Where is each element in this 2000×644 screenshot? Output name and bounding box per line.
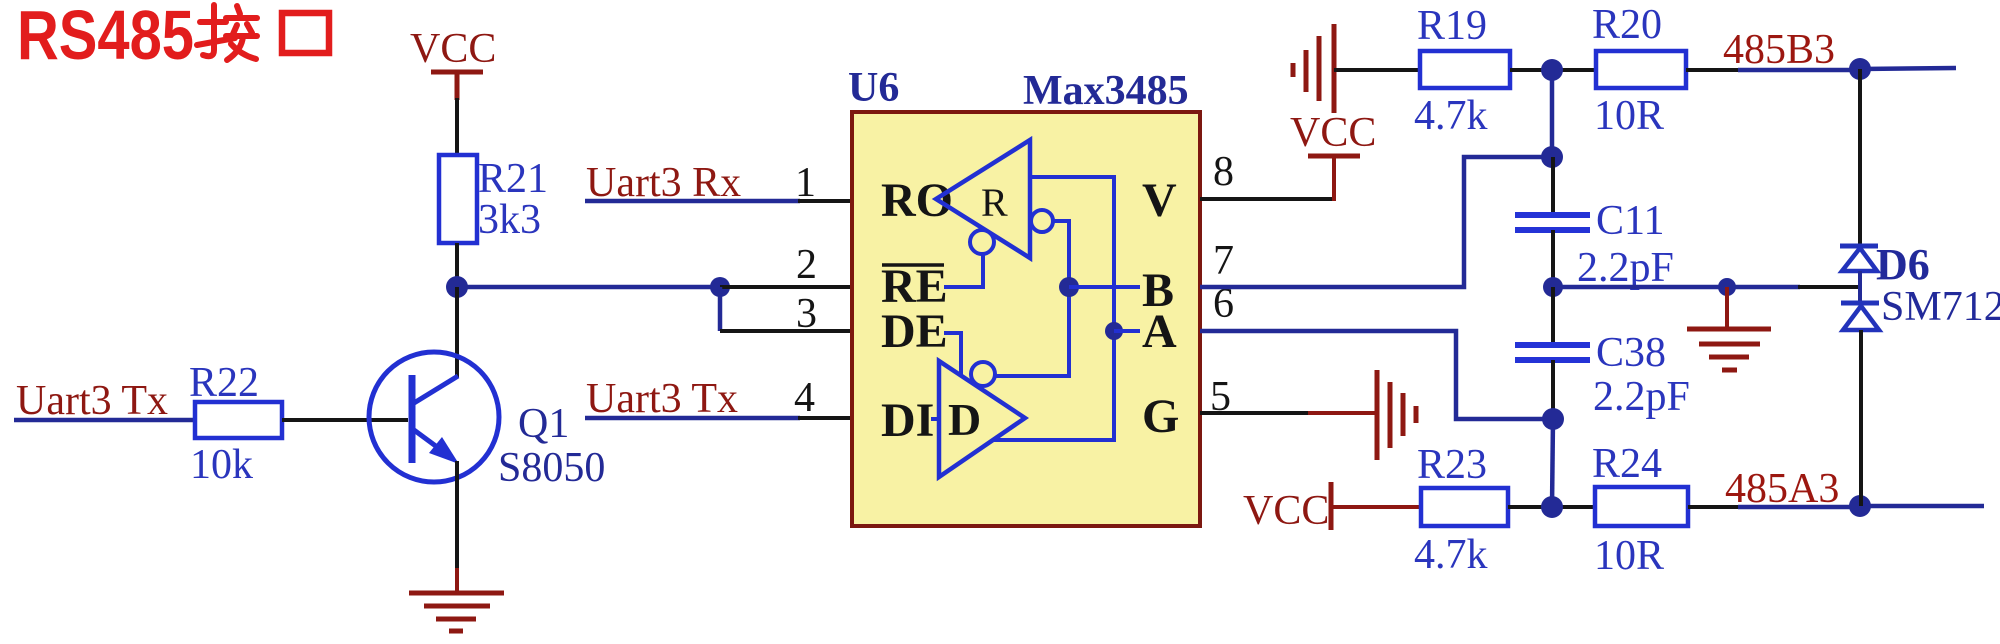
pin name RO <box>881 174 953 227</box>
pin name V <box>1142 174 1177 227</box>
svg-text:SM712: SM712 <box>1881 284 2000 330</box>
wire pin 8 <box>1200 197 1334 201</box>
svg-text:DI: DI <box>881 394 934 447</box>
svg-text:Q1: Q1 <box>518 401 569 447</box>
pin name DE <box>881 305 948 358</box>
resistor R23 <box>1421 488 1508 526</box>
label SM712 <box>1881 284 2000 330</box>
title char 接 <box>197 5 257 60</box>
svg-text:2: 2 <box>796 242 817 288</box>
node junction 485A3 <box>1849 495 1871 517</box>
svg-text:C11: C11 <box>1596 198 1664 244</box>
ground top left (rotated) <box>1293 24 1334 113</box>
pin number 3 <box>796 291 817 337</box>
label R24 value <box>1592 441 1664 579</box>
wire pin 2 <box>720 285 852 289</box>
node junction mid <box>1543 277 1563 297</box>
svg-text:Uart3 Tx: Uart3 Tx <box>586 376 738 422</box>
svg-text:10R: 10R <box>1594 93 1664 139</box>
svg-text:R19: R19 <box>1417 3 1487 49</box>
svg-text:S8050: S8050 <box>498 445 605 491</box>
wire R20 to 485B3 node <box>1686 68 1860 72</box>
IC U6 body <box>852 112 1200 526</box>
label Max3485 <box>1023 68 1189 114</box>
node junction C11 top <box>1541 146 1563 168</box>
ground pin 5 (rotated) <box>1377 370 1416 460</box>
svg-text:G: G <box>1142 390 1179 443</box>
node B internal <box>1059 277 1140 297</box>
svg-text:10k: 10k <box>190 442 253 488</box>
wire 485A3 to edge <box>1860 504 1984 509</box>
label U6 <box>848 65 899 111</box>
wire R19 to node <box>1510 68 1596 72</box>
pin name A <box>1142 305 1177 358</box>
label D6 <box>1876 240 1930 289</box>
svg-text:DE: DE <box>881 305 948 358</box>
node junction 485B3 <box>1849 58 1871 80</box>
bubble on R enable <box>970 230 994 254</box>
wire node to base node <box>457 285 720 290</box>
pin number 1 <box>795 160 816 206</box>
wire R input from A line <box>1030 177 1114 331</box>
label C38 value <box>1593 330 1690 420</box>
svg-text:VCC: VCC <box>1243 488 1329 534</box>
pin name RE with overline <box>881 260 948 313</box>
label Uart3 Tx (pin 4) <box>586 376 738 422</box>
capacitor C11 <box>1515 215 1590 230</box>
net label 485B3 <box>1723 27 1835 73</box>
svg-text:R: R <box>981 180 1008 225</box>
node junction pin2/3 <box>710 277 730 297</box>
wire between diodes <box>1858 271 1862 303</box>
VCC bar <box>431 72 483 100</box>
pin name G <box>1142 390 1179 443</box>
label Uart3 Rx <box>586 160 741 206</box>
wire R24 to 485A3 node <box>1688 505 1860 509</box>
node A internal <box>1105 322 1140 340</box>
wire C38 top <box>1551 287 1555 342</box>
svg-text:R23: R23 <box>1417 442 1487 488</box>
bubble on R output <box>1031 210 1053 232</box>
wire DE to D edge <box>944 333 961 375</box>
svg-text:Max3485: Max3485 <box>1023 68 1189 114</box>
resistor R24 <box>1595 487 1688 526</box>
pin name DI <box>881 394 939 447</box>
label R21 value <box>478 156 548 243</box>
svg-text:R22: R22 <box>189 360 259 406</box>
wire down to pin 3 <box>718 287 723 331</box>
bubble on D enable <box>971 362 995 386</box>
wire emitter to ground <box>455 461 459 593</box>
node junction bottom <box>1541 496 1563 518</box>
svg-text:1: 1 <box>795 160 816 206</box>
wire VCC to R21 <box>455 98 459 156</box>
wire node to ground <box>1725 287 1729 327</box>
svg-text:R24: R24 <box>1592 441 1662 487</box>
svg-text:2.2pF: 2.2pF <box>1593 374 1690 420</box>
svg-text:4.7k: 4.7k <box>1414 532 1488 578</box>
driver triangle D <box>939 361 1025 477</box>
pin number 2 <box>796 242 817 288</box>
wire pin 4 <box>585 416 852 421</box>
wire C38 node to R23 node <box>1552 419 1553 507</box>
svg-text:A: A <box>1142 305 1177 358</box>
pin number 6 <box>1213 281 1234 327</box>
power VCC (pin 8) <box>1290 110 1376 201</box>
svg-text:R21: R21 <box>478 156 548 202</box>
wire pin 1 (Uart3 Rx) <box>585 199 852 204</box>
svg-text:485B3: 485B3 <box>1723 27 1835 73</box>
wire D6 to 485A3 node <box>1859 330 1863 506</box>
wire RE to bubble <box>944 255 983 287</box>
wire pin 7 to C11 node <box>1200 157 1552 287</box>
ground Q1 emitter <box>409 593 504 631</box>
svg-text:R20: R20 <box>1592 2 1662 48</box>
svg-text:VCC: VCC <box>410 26 496 72</box>
power VCC (top left) <box>410 26 496 72</box>
wire mid to D6 <box>1553 285 1860 290</box>
ground mid right <box>1687 329 1771 370</box>
wire D bubble to B line <box>995 287 1069 376</box>
wire D output to A line <box>993 331 1114 440</box>
wire R23 to node <box>1508 505 1595 509</box>
svg-text:2.2pF: 2.2pF <box>1577 245 1674 291</box>
label R20 value <box>1592 2 1664 139</box>
svg-text:8: 8 <box>1213 149 1234 195</box>
resistor R19 <box>1420 51 1510 88</box>
pin number 4 <box>794 375 815 421</box>
label R19 value <box>1414 3 1488 139</box>
capacitor C38 <box>1515 345 1590 360</box>
label Uart3 Tx (left) <box>16 378 168 424</box>
svg-text:Uart3 Tx: Uart3 Tx <box>16 378 168 424</box>
svg-text:7: 7 <box>1213 238 1234 284</box>
svg-text:VCC: VCC <box>1290 110 1376 156</box>
receiver triangle R <box>936 140 1030 258</box>
wire collector <box>455 287 459 378</box>
wire pin 6 to C38 node <box>1200 331 1553 419</box>
title RS485 <box>17 0 194 74</box>
node junction C38 bottom <box>1542 408 1564 430</box>
net label 485A3 <box>1725 466 1839 512</box>
wire R bubble to B line <box>1053 221 1069 287</box>
transistor Q1 <box>369 352 499 482</box>
svg-text:V: V <box>1142 174 1177 227</box>
wire 485B3 node to D6 <box>1858 69 1862 245</box>
pin number 8 <box>1213 149 1234 195</box>
svg-text:4: 4 <box>794 375 815 421</box>
wire 485B3 to edge <box>1860 68 1956 69</box>
wire C38 bottom <box>1551 360 1555 419</box>
title char 口 <box>282 13 329 53</box>
wire node to C11 <box>1550 70 1555 157</box>
label R22 value <box>189 360 259 488</box>
wire Uart3 Tx to R22 <box>14 418 195 423</box>
svg-text:3k3: 3k3 <box>478 197 541 243</box>
label R23 value <box>1414 442 1488 578</box>
wire ground to R19 <box>1334 68 1420 72</box>
resistor R22 <box>195 402 282 438</box>
resistor R21 <box>439 155 477 243</box>
svg-text:C38: C38 <box>1596 330 1666 376</box>
wire pin 3 <box>720 329 852 333</box>
node junction ground mid <box>1718 278 1736 296</box>
svg-text:U6: U6 <box>848 65 899 111</box>
pin number 7 <box>1213 238 1234 284</box>
svg-text:10R: 10R <box>1594 533 1664 579</box>
svg-text:D: D <box>948 394 981 445</box>
svg-text:D6: D6 <box>1876 240 1930 289</box>
node junction below R21 <box>446 276 468 298</box>
label Q1 S8050 <box>498 401 605 491</box>
wire C11 bottom <box>1551 230 1555 287</box>
wire pin 5 to ground <box>1200 411 1377 415</box>
node junction top <box>1541 59 1563 81</box>
wire R21 to node <box>455 243 459 287</box>
diode D6 bottom <box>1841 303 1879 330</box>
wire C11 top <box>1551 157 1555 212</box>
svg-text:4.7k: 4.7k <box>1414 93 1488 139</box>
svg-text:485A3: 485A3 <box>1725 466 1839 512</box>
svg-text:RS485: RS485 <box>17 0 194 74</box>
resistor R20 <box>1596 51 1686 88</box>
wire R22 to base <box>282 418 408 422</box>
label C11 value <box>1577 198 1674 291</box>
pin number 5 <box>1210 374 1231 420</box>
power VCC (bottom) <box>1243 482 1421 534</box>
svg-text:3: 3 <box>796 291 817 337</box>
diode D6 top <box>1840 246 1878 271</box>
pin name B <box>1142 264 1174 317</box>
